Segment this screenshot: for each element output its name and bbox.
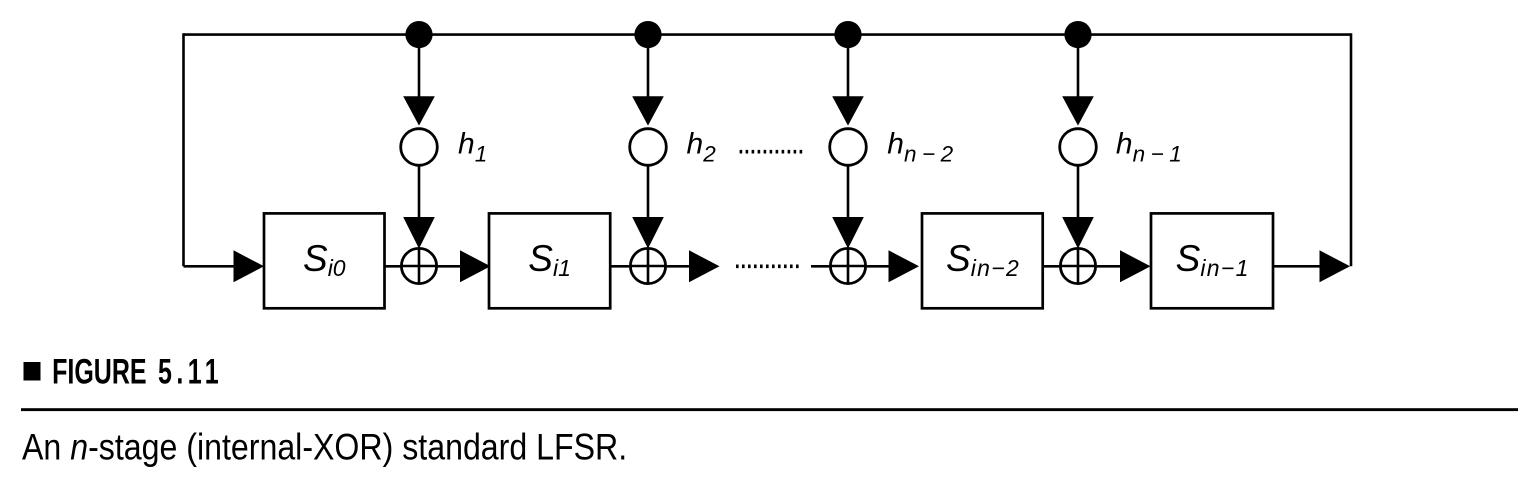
register box Si1 [489, 213, 610, 308]
wire feedback left vertical [182, 33, 185, 266]
XOR gate 4 [1060, 248, 1095, 283]
svg-text:hn−2: hn−2 [887, 127, 953, 166]
wire box3 to arrow into box4 (through XOR4) [1043, 265, 1121, 268]
wire box2 to arrow before dots (through XOR2) [610, 265, 689, 268]
register box Sin-1 [1151, 213, 1273, 308]
dotted ellipsis top (between h2 and hn-2) [740, 150, 803, 154]
arrowhead right output [1320, 250, 1351, 282]
wire feedback right vertical [1350, 33, 1353, 266]
XOR gate 1 [401, 248, 436, 283]
arrowhead right into box1 [234, 250, 265, 282]
coefficient circle hn-1 [1060, 129, 1097, 166]
XOR gate 3 [830, 248, 865, 283]
arrowhead right into box4 [1120, 250, 1151, 282]
arrowhead right into box2 [460, 250, 491, 282]
arrowhead down tap4 lower [1062, 217, 1094, 249]
wire tap4 vertical [1077, 35, 1080, 218]
coefficient circle h2 [630, 129, 667, 166]
arrowhead right into box3 [889, 250, 920, 282]
arrowhead down tap2 upper [632, 96, 664, 125]
node junction dot tap2 [634, 21, 661, 48]
coefficient circle h1 [401, 129, 438, 166]
wire box1 to arrow into box2 (through XOR1) [385, 265, 461, 268]
svg-text:An n-stage (internal-XOR) stan: An n-stage (internal-XOR) standard LFSR. [22, 426, 627, 468]
arrowhead down tap2 lower [632, 217, 664, 249]
wire input to stage 0 [184, 265, 235, 268]
arrowhead down tap1 upper [403, 96, 435, 125]
wire box4 to output arrow [1273, 265, 1320, 268]
wire tap2 vertical [647, 35, 650, 218]
svg-text:h2: h2 [687, 127, 717, 166]
svg-text:h1: h1 [458, 127, 487, 166]
coefficient circle hn-2 [830, 129, 867, 166]
XOR gate 2 [630, 248, 665, 283]
caption bullet square [24, 362, 41, 381]
register box Sin-2 [922, 213, 1043, 308]
wire feedback top line [184, 33, 1352, 36]
wire dots to arrow into box3 (through XOR3) [811, 265, 889, 268]
node junction dot tap1 [405, 21, 432, 48]
caption rule [21, 408, 1518, 411]
arrowhead down tap1 lower [403, 217, 435, 249]
arrowhead down tap4 upper [1062, 96, 1094, 125]
svg-text:hn−1: hn−1 [1116, 127, 1182, 166]
svg-text:FIGURE 5.11: FIGURE 5.11 [52, 352, 223, 391]
node junction dot tap4 [1064, 21, 1091, 48]
node junction dot tap3 [834, 21, 861, 48]
arrowhead down tap3 lower [832, 217, 864, 249]
arrowhead right before dots [689, 250, 720, 282]
wire tap1 vertical [418, 35, 421, 218]
dotted ellipsis bottom (between stages) [736, 264, 799, 268]
wire tap3 vertical [847, 35, 850, 218]
register box Si0 [264, 213, 385, 308]
arrowhead down tap3 upper [832, 96, 864, 125]
